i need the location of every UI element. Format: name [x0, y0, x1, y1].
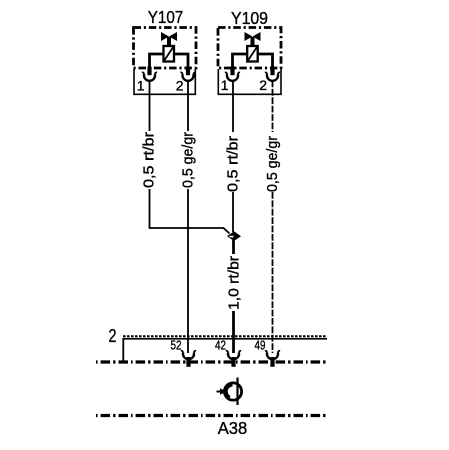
wire from Y109 pin 1 (0,5 rt/br) upper segment	[232, 81, 234, 133]
svg-text:52: 52	[171, 339, 182, 353]
wire from Y109 pin 2 lower dashed segment to pin 49	[272, 192, 274, 353]
valve symbol Y107 (bowtie)	[161, 32, 177, 47]
wire label 0,5 ge/gr (Y109 pin2)	[264, 136, 281, 192]
bus line 2 left drop	[122, 339, 124, 361]
pin 52 label	[171, 339, 182, 353]
wire from Y107 pin 2 (0,5 ge/gr) upper segment	[187, 81, 189, 132]
label A38	[218, 418, 248, 438]
wire label 1,0 rt/br	[226, 256, 243, 310]
junction (diamond splice)	[227, 231, 241, 241]
wire from Y109 pin 1 down to junction	[232, 192, 234, 232]
Y109 pin 1 socket	[225, 72, 240, 80]
svg-text:0,5 rt/br: 0,5 rt/br	[225, 136, 242, 192]
connector strip (fine dashed line)	[123, 335, 327, 337]
pin 49 label	[255, 339, 266, 353]
svg-text:0,5 rt/br: 0,5 rt/br	[141, 132, 158, 188]
bus line 2 label	[109, 325, 117, 346]
svg-text:2: 2	[259, 77, 267, 93]
svg-text:2: 2	[109, 325, 117, 346]
bus line 2 (solid)	[123, 338, 328, 340]
wire label 0,5 ge/gr (Y107 pin2)	[180, 132, 197, 188]
wire label 0,5 rt/br (Y109 pin1)	[225, 136, 242, 192]
svg-text:1,0 rt/br: 1,0 rt/br	[226, 256, 243, 310]
wire from Y109 pin 2 (0,5 ge/gr, dashed) upper segment	[272, 81, 274, 133]
Y107 pin 1 label	[137, 78, 145, 94]
bolted connection symbol inside A38	[217, 378, 242, 406]
control unit A38 upper boundary (dash-dot)	[96, 360, 327, 363]
svg-text:0,5 ge/gr: 0,5 ge/gr	[180, 132, 197, 188]
Y107 pin 2 label	[176, 78, 184, 94]
solenoid valve Y109 boundary (dash-dot box)	[218, 28, 281, 69]
svg-text:0,5 ge/gr: 0,5 ge/gr	[264, 136, 281, 192]
pin 42 label	[215, 339, 226, 353]
Y109 pin 2 label	[259, 77, 267, 93]
Y109 internal leads to pins 1 and 2	[233, 54, 273, 75]
svg-text:1: 1	[221, 77, 229, 93]
Y107 pin 2 socket	[180, 72, 195, 80]
Y107 internal leads to pins 1 and 2	[150, 54, 189, 75]
svg-text:2: 2	[176, 78, 184, 94]
solenoid coil Y107 (rectangle with diagonal)	[164, 46, 175, 62]
pin 42 socket on A38	[226, 351, 241, 367]
pin 49 socket on A38	[265, 351, 280, 367]
svg-text:Y109: Y109	[231, 8, 268, 28]
Y109 pin 2 socket	[265, 72, 280, 80]
wire from Y107 pin 1 (0,5 rt/br) upper segment	[149, 81, 151, 132]
Y109 connector housing	[218, 69, 281, 94]
Y109 pin 1 label	[221, 77, 229, 93]
wire from Y107 pin 2 lower segment to pin 52	[187, 189, 189, 353]
label Y107	[148, 7, 184, 27]
valve symbol Y109 (bowtie)	[245, 32, 261, 47]
wire 1,0 rt/br upper stub below junction	[232, 240, 235, 254]
solenoid valve Y107 boundary (dash-dot box)	[134, 28, 197, 69]
label Y109	[231, 8, 268, 28]
svg-text:1: 1	[137, 78, 145, 94]
pin 52 socket on A38	[181, 351, 196, 367]
svg-text:Y107: Y107	[148, 7, 184, 27]
wire label 0,5 rt/br (Y107 pin1)	[141, 132, 158, 188]
wire from Y107 pin 1 lower segment with jog to junction	[150, 189, 230, 234]
solenoid coil Y109 (rectangle with diagonal)	[247, 46, 258, 62]
Y107 connector housing	[134, 69, 195, 94]
wire 1,0 rt/br lower segment to pin 42	[232, 311, 235, 353]
svg-text:42: 42	[215, 339, 226, 353]
svg-text:A38: A38	[218, 418, 248, 438]
svg-text:49: 49	[255, 339, 266, 353]
Y107 pin 1 socket	[142, 72, 157, 80]
control unit A38 lower boundary (dash-dot)	[96, 414, 327, 417]
